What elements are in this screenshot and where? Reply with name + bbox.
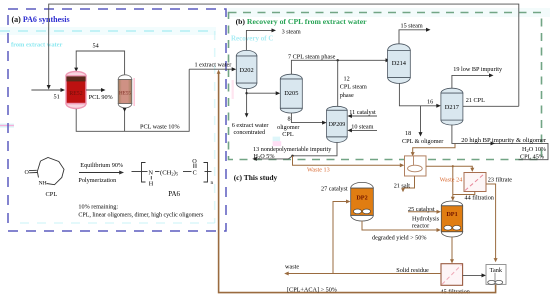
reaction arrow xyxy=(79,171,124,175)
label 16 xyxy=(427,99,433,106)
svg-text:D205: D205 xyxy=(284,90,298,97)
svg-text:CPL steam: CPL steam xyxy=(340,83,367,90)
wire: 27 catalyst recycle into DP2 xyxy=(333,200,351,274)
svg-text:10 steam: 10 steam xyxy=(351,124,373,131)
wire: feed 51 xyxy=(31,88,65,92)
label C xyxy=(193,169,197,176)
label CPL xyxy=(46,191,58,198)
ghost cyan text: Recovery of C xyxy=(231,35,273,43)
wire: stream 12 riser xyxy=(337,60,339,106)
wire: DP2 to DP1 degraded xyxy=(362,221,441,232)
molecule CPL ring xyxy=(29,158,64,185)
ghost cyan+pink squares below D205 xyxy=(273,137,282,147)
label 1 extract water xyxy=(195,62,232,69)
ghost pink stripe left of D202 xyxy=(232,80,234,99)
label (c) This study xyxy=(234,173,278,182)
filter 45 xyxy=(441,264,463,286)
label 15 steam xyxy=(401,23,423,30)
svg-text:PCL 90%: PCL 90% xyxy=(89,94,113,101)
svg-text:H2O 10%: H2O 10% xyxy=(522,146,546,153)
svg-text:44 filtration: 44 filtration xyxy=(465,195,494,202)
svg-text:15 steam: 15 steam xyxy=(401,23,423,30)
wire: 23 filtrate to tank xyxy=(486,184,498,262)
svg-text:D202: D202 xyxy=(239,67,253,74)
label 18 CPL & oligomer xyxy=(402,130,443,145)
svg-text:reactor: reactor xyxy=(412,222,429,229)
svg-text:Equilibrium 90%: Equilibrium 90% xyxy=(80,162,123,169)
label Solid residue xyxy=(396,267,429,274)
wire: stream 3 steam xyxy=(246,28,276,50)
svg-text:1 extract water: 1 extract water xyxy=(195,62,232,69)
label Polymerization xyxy=(78,177,116,184)
svg-text:H2O 5%: H2O 5% xyxy=(254,153,275,160)
svg-text:CPL 45%: CPL 45% xyxy=(520,153,544,160)
svg-text:NH: NH xyxy=(39,181,47,187)
svg-text:CPL: CPL xyxy=(46,191,58,198)
label 20 high BP impurity & oligomer xyxy=(461,137,547,144)
label (a) PA6 synthesis xyxy=(12,15,70,24)
svg-text:11 catalyst: 11 catalyst xyxy=(349,109,376,116)
tank xyxy=(486,265,506,285)
svg-text:waste: waste xyxy=(285,263,299,270)
ghost pink dash left xyxy=(0,124,14,128)
label NH of CPL xyxy=(39,181,47,187)
label 45 filtration xyxy=(441,288,470,295)
svg-text:HE55: HE55 xyxy=(119,90,131,96)
label 7 CPL steam phase xyxy=(288,53,336,60)
label 21 salt xyxy=(394,183,411,190)
ghost cyan band top xyxy=(228,8,550,17)
wire: filter45 to tank xyxy=(463,273,486,277)
svg-text:H: H xyxy=(149,181,154,188)
wire: stream 1 extract water xyxy=(189,67,236,71)
svg-text:20 high BP impurity & oligomer: 20 high BP impurity & oligomer xyxy=(461,137,547,144)
box (b) recovery (green dashed) xyxy=(229,13,542,160)
label waste xyxy=(285,263,299,270)
label CPL, linear oligomers, dimer, high cyclic oligomers xyxy=(78,213,204,219)
svg-text:Solid residue: Solid residue xyxy=(396,267,429,274)
svg-text:oligomer: oligomer xyxy=(277,124,299,131)
svg-text:RE52: RE52 xyxy=(69,91,82,97)
molecule PA6 repeat unit xyxy=(132,163,212,183)
column D217 xyxy=(441,88,463,125)
label PA6 xyxy=(168,190,180,198)
filter 44 xyxy=(464,173,486,192)
svg-text:25 catalyst: 25 catalyst xyxy=(408,206,435,213)
svg-text:Tank: Tank xyxy=(490,267,503,274)
label Hydrolysis reactor xyxy=(412,216,440,230)
wire: stream 6 down xyxy=(245,89,249,118)
svg-text:54: 54 xyxy=(93,43,99,50)
svg-text:PA6: PA6 xyxy=(168,190,180,198)
label N xyxy=(149,169,154,176)
ghost cyan dashed box xyxy=(0,31,215,223)
column D205 xyxy=(280,74,302,113)
wire: mixer branch down into DP1 xyxy=(451,166,455,201)
svg-text:(a) PA6 synthesis: (a) PA6 synthesis xyxy=(12,15,70,24)
label 44 filtration xyxy=(465,195,494,202)
svg-text:8: 8 xyxy=(288,116,291,123)
svg-text:phase: phase xyxy=(340,92,354,99)
wire: stream 7 CPL steam phase xyxy=(291,58,390,74)
arrowhead into RE52 top xyxy=(74,68,78,72)
svg-text:D214: D214 xyxy=(392,60,407,67)
wire: loop 54 xyxy=(76,51,124,75)
svg-text:(c) This study: (c) This study xyxy=(234,173,278,182)
label 21 CPL xyxy=(466,97,485,104)
label O of CPL xyxy=(25,170,30,176)
svg-text:Recovery of C: Recovery of C xyxy=(231,35,273,43)
wire: PCL waste 10% xyxy=(76,69,189,131)
wire: stream 8 oligomer CPL xyxy=(291,113,326,125)
label H2O 10% xyxy=(522,146,546,153)
label O xyxy=(192,158,197,165)
wire: CPL recycle 21 top line xyxy=(49,4,519,106)
label 27 catalyst xyxy=(321,186,348,193)
label [CPL+ACA] > 50% xyxy=(287,286,337,293)
label (CH2)5 xyxy=(160,169,179,176)
label 19 low BP impurity xyxy=(453,66,503,73)
label 51 xyxy=(54,94,60,101)
wire: D202 to D205 xyxy=(247,91,281,95)
svg-text:CPL & oligomer: CPL & oligomer xyxy=(402,138,443,145)
svg-text:(CH2)5: (CH2)5 xyxy=(160,169,179,176)
label 8 oligomer CPL xyxy=(277,116,299,139)
label PCL 90% xyxy=(89,94,113,101)
label 6 extract water concentrated xyxy=(232,122,269,136)
svg-text:19 low BP impurity: 19 low BP impurity xyxy=(453,66,503,73)
wire: stream 18 branch xyxy=(419,106,423,137)
wire: stream 19 low BP impurity xyxy=(452,73,494,88)
svg-text:23 filtrate: 23 filtrate xyxy=(488,177,512,184)
svg-text:PCL waste 10%: PCL waste 10% xyxy=(140,124,180,131)
reactor DP1 xyxy=(441,201,462,237)
column D214 xyxy=(388,44,411,84)
wire: stream 15 steam xyxy=(399,28,431,44)
column D202 xyxy=(236,50,257,88)
wire: HE55 bottom drop xyxy=(123,108,127,131)
wire: stream 20 high BP bracket xyxy=(452,125,548,160)
reactor RE52 xyxy=(66,72,86,109)
svg-text:n: n xyxy=(211,180,214,186)
svg-text:DP2: DP2 xyxy=(356,194,367,201)
column DP209 xyxy=(327,106,348,142)
label Waste 24 xyxy=(440,176,463,183)
svg-text:C: C xyxy=(193,169,197,176)
label 54 xyxy=(93,43,99,50)
label 11 catalyst xyxy=(349,109,376,116)
svg-text:from extract water: from extract water xyxy=(11,42,62,49)
svg-text:51: 51 xyxy=(54,94,60,101)
wire: DP209 bottoms to stream 13 xyxy=(255,142,338,159)
label degraded yield > 50% xyxy=(372,234,427,241)
label 12 CPL steam phase xyxy=(340,76,367,99)
svg-text:Polymerization: Polymerization xyxy=(78,177,116,184)
svg-text:27 catalyst: 27 catalyst xyxy=(321,186,348,193)
wire: Waste 24 to filter 44 xyxy=(426,165,474,172)
svg-text:Waste 24: Waste 24 xyxy=(440,176,463,183)
svg-text:21 salt: 21 salt xyxy=(394,183,411,190)
svg-text:Waste 13: Waste 13 xyxy=(307,166,330,173)
label Waste 13 xyxy=(307,166,330,173)
svg-text:CPL, linear oligomers, dimer,: CPL, linear oligomers, dimer, high cycli… xyxy=(78,213,204,219)
svg-text:DP209: DP209 xyxy=(329,122,346,128)
wire: 21 salt out xyxy=(401,176,414,192)
svg-text:7 CPL steam phase: 7 CPL steam phase xyxy=(288,53,336,60)
label 10 steam xyxy=(351,124,373,131)
svg-text:D217: D217 xyxy=(445,104,460,111)
svg-text:[CPL+ACA] > 50%: [CPL+ACA] > 50% xyxy=(287,286,337,293)
svg-text:13 nondepolymeriable impurity: 13 nondepolymeriable impurity xyxy=(253,146,332,153)
reactor DP2 xyxy=(351,182,374,221)
wire: stream 11 catalyst xyxy=(347,114,377,118)
wire: solid residue / waste line xyxy=(284,272,441,276)
svg-text:6 extract water: 6 extract water xyxy=(232,122,269,129)
wire: big recycle [CPL+ACA] xyxy=(219,72,496,293)
wire: stream 16 xyxy=(399,84,440,108)
wire: DP1 to filter 45 xyxy=(450,237,454,264)
wire: PCL 90% product xyxy=(86,88,106,92)
label+wire 25 catalyst xyxy=(408,206,441,214)
label (b) Recovery of CPL from extract water xyxy=(236,17,368,26)
svg-text:16: 16 xyxy=(427,99,433,106)
label 23 filtrate xyxy=(488,177,512,184)
ghost cyan text: from extract water xyxy=(11,42,62,49)
svg-text:(b) Recovery of CPL from extra: (b) Recovery of CPL from extract water xyxy=(236,17,368,26)
svg-text:DP1: DP1 xyxy=(446,211,457,218)
wire: stream 20 return (brown) xyxy=(413,144,455,154)
mixer M1 xyxy=(405,156,427,176)
svg-text:O: O xyxy=(192,158,197,165)
svg-text:12: 12 xyxy=(344,76,350,83)
svg-text:degraded yield > 50%: degraded yield > 50% xyxy=(372,234,427,241)
svg-text:concentrated: concentrated xyxy=(234,129,267,136)
label PCL waste 10% xyxy=(140,124,180,131)
label Equilibrium 90% xyxy=(80,162,123,169)
svg-text:18: 18 xyxy=(405,130,411,137)
label CPL 45% xyxy=(520,153,544,160)
wire: Waste 13 (brown) xyxy=(293,156,405,168)
label 13 nondepolymeriable impurity H2O 5% xyxy=(253,146,332,160)
label n subscript xyxy=(211,180,214,186)
wire: filter44 solids to DP1 xyxy=(453,192,475,195)
svg-text:N: N xyxy=(149,169,154,176)
svg-text:3 steam: 3 steam xyxy=(282,28,301,35)
label 3 steam xyxy=(282,28,301,35)
wire: stream 10 steam xyxy=(347,128,377,132)
box (a) PA6 synthesis (blue dashed) xyxy=(8,9,226,231)
svg-text:21 CPL: 21 CPL xyxy=(466,97,485,104)
svg-text:45 filtration: 45 filtration xyxy=(441,288,470,295)
heat exchanger HE55 xyxy=(118,75,134,108)
label 10% remaining xyxy=(78,204,118,211)
label H xyxy=(149,181,154,188)
svg-text:O: O xyxy=(25,170,30,176)
svg-text:CPL: CPL xyxy=(282,131,294,138)
wire: stream 21 CPL to recycle xyxy=(463,105,519,107)
ghost cyan band left xyxy=(0,27,216,35)
svg-text:10% remaining:: 10% remaining: xyxy=(78,204,118,211)
arrowhead recycle down into feed xyxy=(47,85,51,90)
